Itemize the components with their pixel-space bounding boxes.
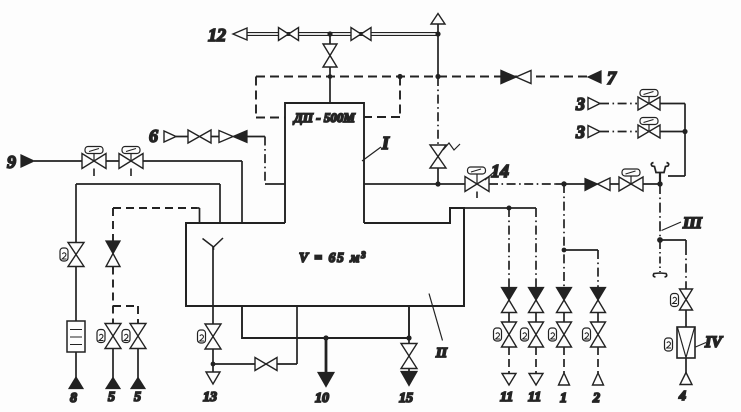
svg-text:10: 10 <box>315 391 329 406</box>
svg-text:III: III <box>682 215 702 232</box>
svg-text:5: 5 <box>108 390 115 405</box>
svg-text:11: 11 <box>528 390 541 405</box>
svg-text:8: 8 <box>70 391 77 406</box>
svg-text:14: 14 <box>491 161 509 181</box>
svg-text:ДП - 500М: ДП - 500М <box>293 110 355 125</box>
svg-text:15: 15 <box>399 391 413 406</box>
svg-text:12: 12 <box>208 25 226 45</box>
svg-text:9: 9 <box>7 152 16 172</box>
svg-text:5: 5 <box>134 390 141 405</box>
svg-text:13: 13 <box>203 390 217 405</box>
svg-text:IV: IV <box>704 334 723 351</box>
svg-text:7: 7 <box>607 68 617 88</box>
svg-text:3: 3 <box>575 94 585 114</box>
svg-text:II: II <box>435 346 447 361</box>
svg-text:6: 6 <box>149 126 158 146</box>
svg-text:I: I <box>381 133 390 153</box>
svg-text:4: 4 <box>678 389 686 404</box>
svg-text:2: 2 <box>592 391 600 406</box>
svg-text:11: 11 <box>500 390 513 405</box>
svg-text:3: 3 <box>575 122 585 142</box>
svg-text:V = 65 м3: V = 65 м3 <box>299 250 366 265</box>
svg-text:1: 1 <box>560 391 567 406</box>
